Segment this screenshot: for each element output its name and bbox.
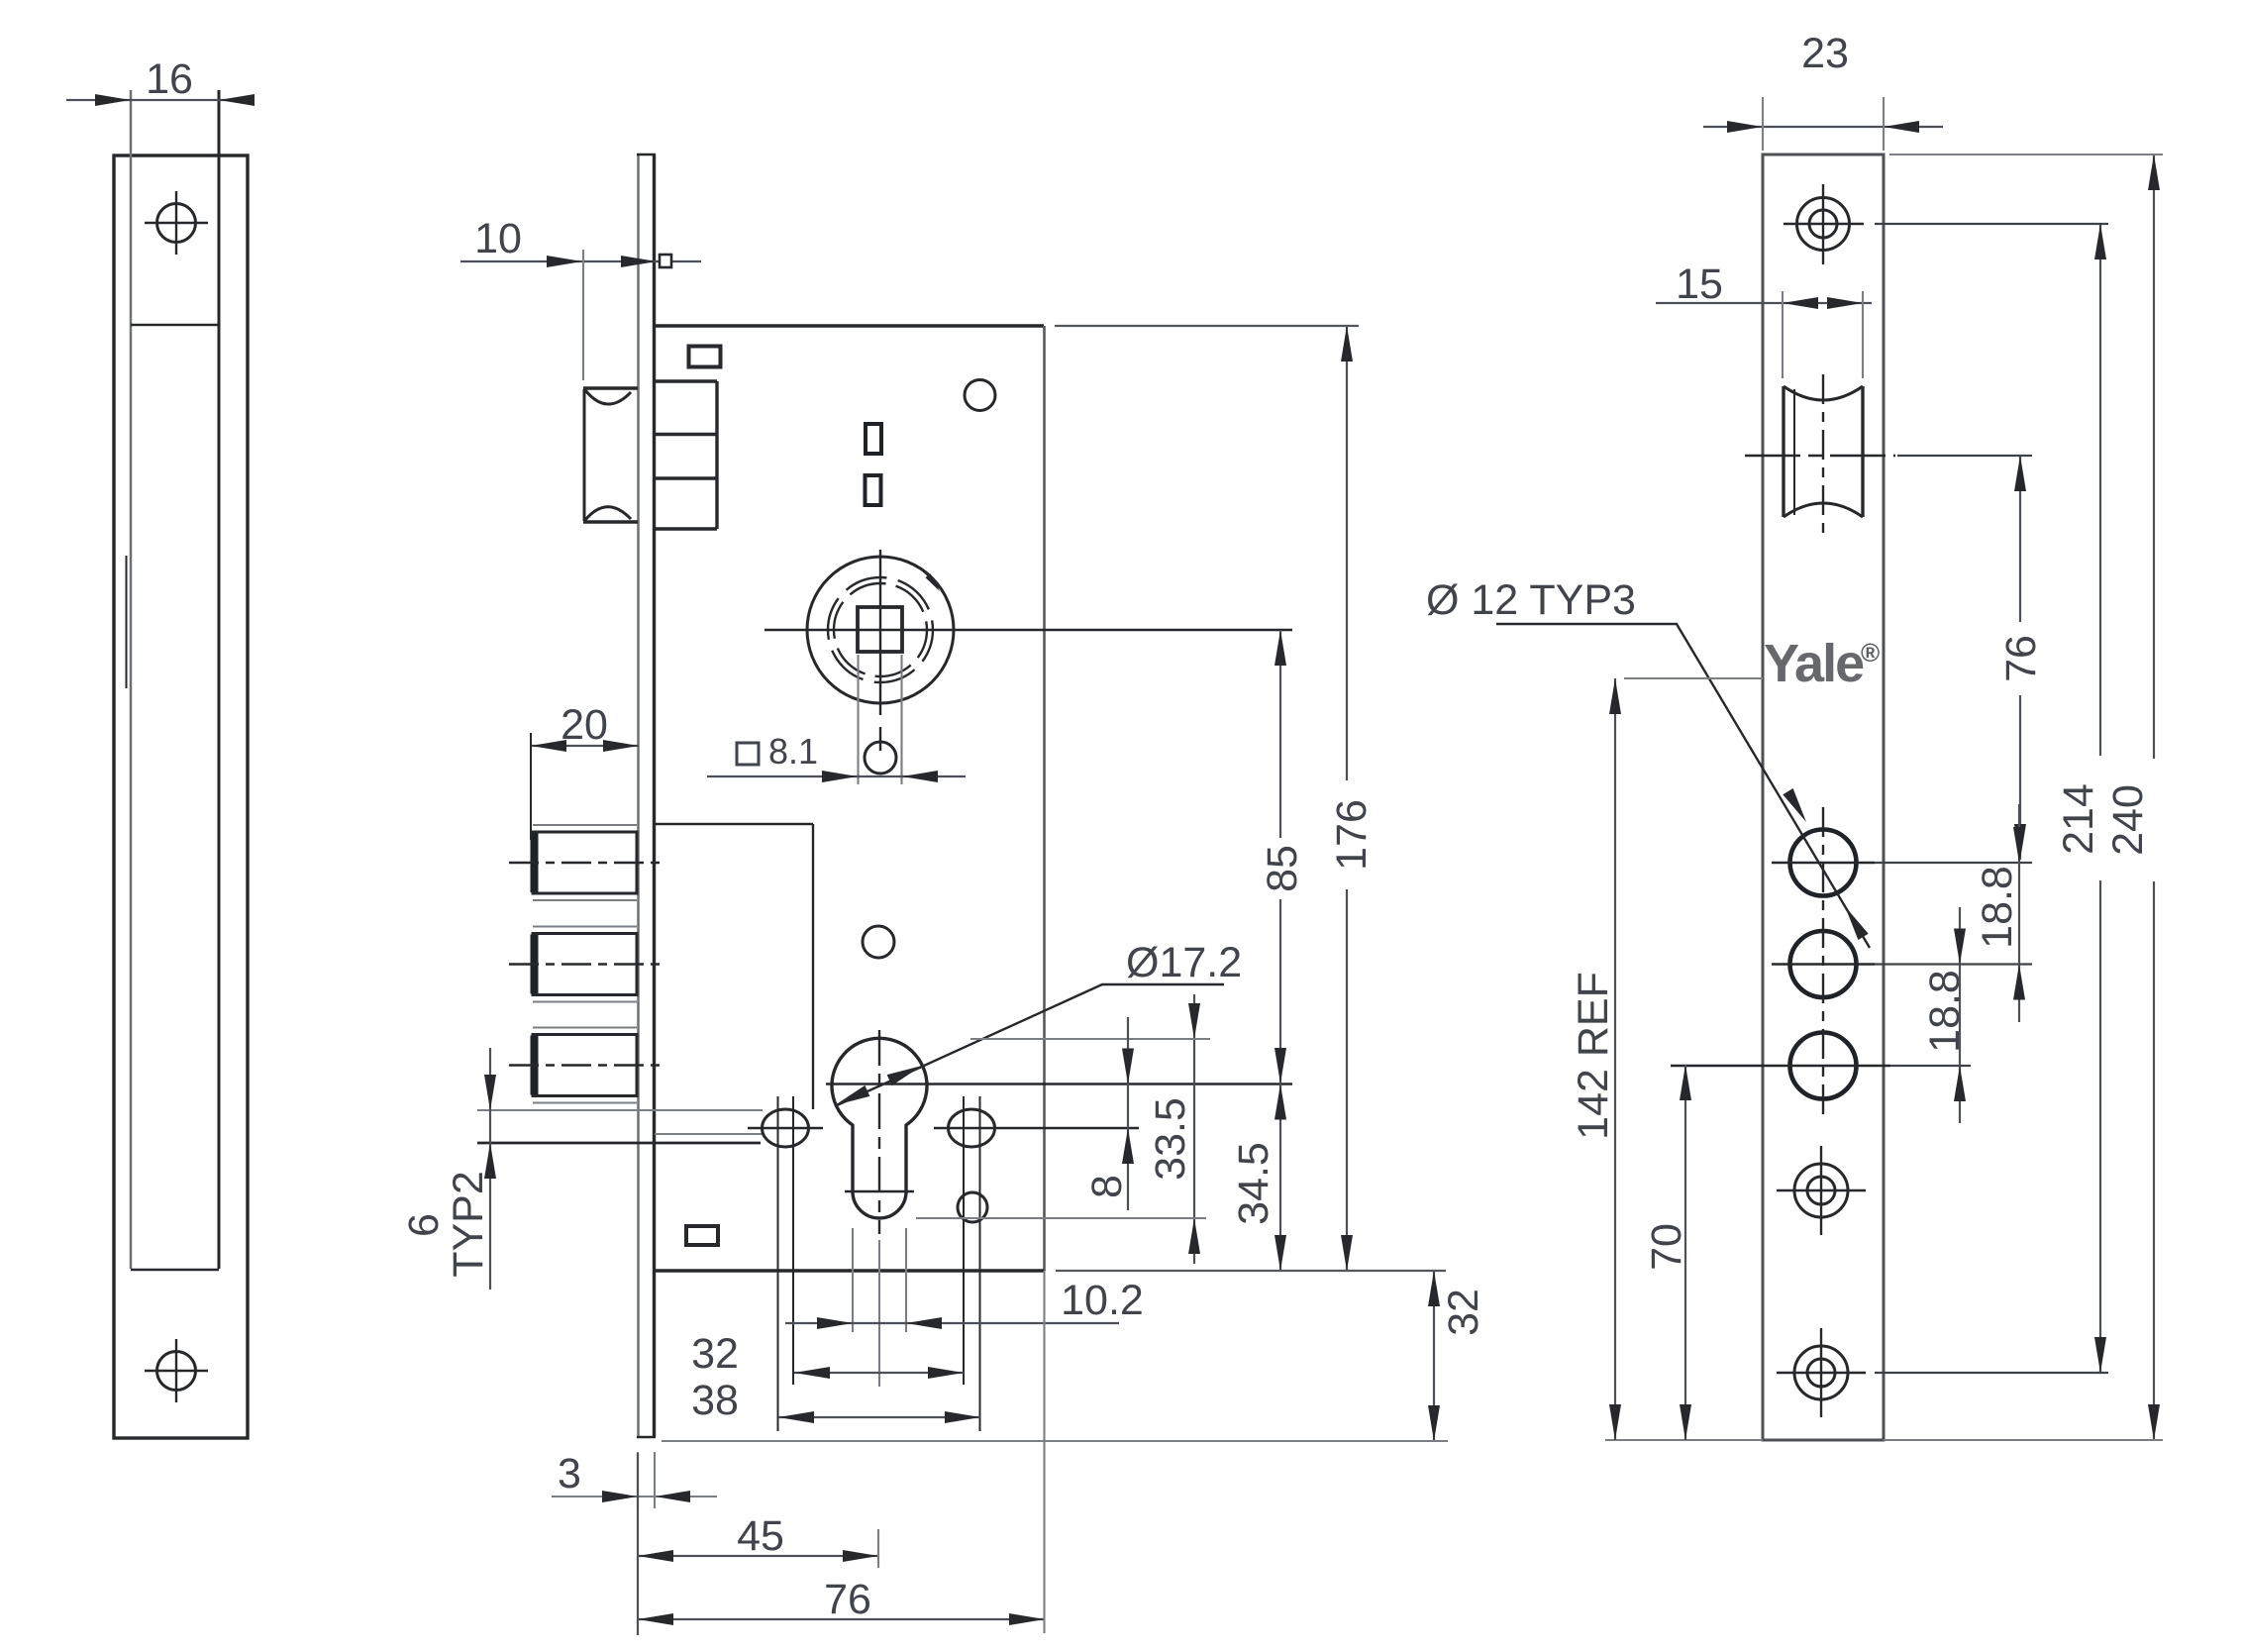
svg-text:23: 23 (1801, 30, 1849, 77)
svg-text:176: 176 (1328, 799, 1376, 871)
left view: faceplate side profile outline (114, 155, 248, 1438)
middle view: deadbolt pin 2 hole lines (533, 927, 637, 1002)
middle view: lock case bottom edge (655, 1269, 1044, 1272)
svg-text:20: 20 (561, 701, 608, 749)
dimension 176 line and arrows (1341, 326, 1353, 1271)
right view: Yale logo (1764, 634, 1880, 693)
dimension 76 right extension line (1043, 1271, 1045, 1633)
extension line plate top to 240 (1889, 154, 2163, 155)
left view: lock case top edge (side) (131, 324, 219, 326)
middle view: forend plate left edge (637, 155, 640, 1437)
dimension 23 extension lines (1763, 97, 1884, 151)
dimension 176 text (1328, 799, 1376, 871)
dimension 6 TYP2 text (400, 1171, 492, 1278)
extension lines 10.2 dim (853, 1228, 906, 1332)
right view: screw hole 5 (countersunk) (1777, 1328, 1866, 1417)
middle view: latch bolt head bottom edge (583, 520, 638, 523)
dimension 45 text (737, 1512, 784, 1560)
svg-text:45: 45 (737, 1512, 784, 1560)
svg-text:8: 8 (1083, 1175, 1131, 1198)
left view: top screw hole (145, 191, 208, 255)
extension line hole1 center (1875, 862, 2032, 864)
dimension 10 text (474, 215, 522, 262)
dimension 20 extension line (530, 733, 532, 840)
dimension 18.8 upper text (1974, 866, 2021, 949)
svg-text:85: 85 (1259, 845, 1306, 892)
dimension 76 (right view) line and arrows (2014, 456, 2026, 860)
dimension 32 vertical text (1440, 1289, 1487, 1336)
dimension 15 line and arrows (1656, 297, 1872, 309)
svg-text:Ø 12 TYP3: Ø 12 TYP3 (1426, 576, 1636, 624)
dimension 23 text (1801, 30, 1849, 77)
svg-text:Yale: Yale (1764, 634, 1864, 693)
middle view: latch bolt head left edge (583, 389, 586, 521)
dimension 16 text (146, 55, 193, 103)
extension line forend bottom (662, 1440, 1448, 1442)
svg-text:18.8: 18.8 (1974, 866, 2021, 949)
extension line top screw hole to 214 (1875, 223, 2108, 225)
dimension 6 line and arrows (484, 1048, 496, 1290)
extension lines 32 dim (793, 1096, 964, 1385)
left view: lock case bottom edge (side) (131, 1269, 219, 1271)
dimension 16 line and arrows (66, 94, 255, 106)
dimension 10.2 line and arrows (785, 1317, 1119, 1329)
middle view: slot hole 1 (866, 424, 881, 454)
dimension 38 text (691, 1377, 739, 1424)
dimension 70 line and arrows (1680, 1065, 1691, 1440)
svg-text:70: 70 (1643, 1223, 1690, 1271)
dimension 3 extension lines (638, 1452, 655, 1508)
dimension 10 extension line (582, 250, 584, 380)
label Ø12 TYP3 leader with arrows (1496, 624, 1870, 948)
extension line keyhole bottom to 33.5 (916, 1217, 1206, 1219)
svg-text:3: 3 (558, 1450, 581, 1497)
dimension 32 horizontal text (691, 1330, 739, 1378)
dimension square 8.1 symbol and text (737, 731, 818, 772)
svg-text:18.8: 18.8 (1921, 970, 1969, 1053)
middle view: cylinder screw hole right (934, 1109, 1139, 1147)
right view: roller centerlines (1745, 374, 1895, 540)
extension line roller center to 76 dim (1897, 455, 2032, 457)
svg-text:16: 16 (146, 55, 193, 103)
extension line plate bottom (1605, 1439, 2163, 1441)
dimension 70 text (1643, 1223, 1690, 1271)
middle view: small circle below spindle (865, 742, 896, 774)
extension line for 142 REF top (1624, 677, 1763, 679)
extension line cylinder top to 33.5 (970, 1038, 1210, 1040)
svg-text:8.1: 8.1 (768, 731, 818, 772)
right view: screw hole 4 (countersunk) (1777, 1146, 1866, 1235)
middle view: small circle lower right (958, 1192, 987, 1222)
middle view: deadbolt pin 1 hole lines (533, 825, 637, 900)
dimension 240 text (2104, 784, 2152, 856)
dimension 33.5 line and arrows (1188, 994, 1200, 1264)
dimension 3 line and arrows (552, 1491, 717, 1502)
left view: bottom screw hole (145, 1339, 208, 1402)
dimension 45 line and arrows (638, 1550, 878, 1562)
svg-text:10.2: 10.2 (1061, 1277, 1144, 1324)
dimension 15 text (1676, 260, 1723, 308)
left view: faceplate inner left edge / 16-dim extension (130, 90, 133, 1269)
dimension 8 line and arrows (1122, 1017, 1134, 1210)
right view: faceplate front outline (1763, 155, 1884, 1440)
dimension 76 horizontal line and arrows (638, 1613, 1045, 1625)
middle view: deadbolt pin 2 (533, 934, 637, 995)
middle view: deadbolt pin 2 centerline (509, 963, 662, 965)
middle view: keyhole centerlines (826, 1030, 1292, 1234)
middle view: spindle centerlines (765, 550, 1292, 751)
svg-text:32: 32 (1440, 1289, 1487, 1336)
extension line case top to 176 (1055, 325, 1359, 327)
dimension 38 line and arrows (778, 1411, 980, 1423)
middle view: inner mechanism boundary (655, 824, 813, 1109)
svg-text:34.5: 34.5 (1230, 1142, 1277, 1225)
middle view: small circle upper right (965, 380, 995, 411)
dimension 214 line and arrows (2094, 224, 2106, 1373)
svg-text:33.5: 33.5 (1147, 1097, 1194, 1181)
right view: vertical centerline through pin holes (1822, 807, 1824, 1121)
middle view: deadbolt pin 3 hole lines (533, 1028, 637, 1103)
dimension 32 vertical line and arrows (1428, 1271, 1440, 1441)
middle view: rotation direction arc arrow (923, 570, 943, 593)
middle view: small square hole upper (689, 347, 721, 367)
middle view: deadbolt pin 1 (533, 832, 637, 893)
dimension 18.8 lower text (1921, 970, 1969, 1053)
middle view: guard plate line C (477, 1142, 761, 1145)
dimension 18.8 lower line and arrows (1954, 907, 1966, 1123)
dimension 85 and 34.5 shared line with arrows (1274, 630, 1286, 1271)
dimension 214 text (2055, 783, 2102, 855)
middle view: guard plate line A (477, 1109, 763, 1111)
middle view: spindle follower outer circle (807, 557, 954, 703)
label Ø17.2 leader and arrows (833, 984, 1224, 1110)
middle view: deadbolt pin 3 centerline (509, 1064, 662, 1066)
middle view: forend plate top and bottom edges (637, 155, 656, 1437)
middle view: forend plate right edge (653, 155, 656, 1437)
dimension 20 text (561, 701, 608, 749)
dimension 76 horizontal text (824, 1576, 871, 1623)
svg-text:76: 76 (1997, 635, 2045, 682)
dimension 18.8 upper line and arrows (2013, 804, 2025, 1022)
svg-text:10: 10 (474, 215, 522, 262)
dimension 142 REF text (1570, 972, 1617, 1140)
dimension 15 extension lines (1783, 291, 1863, 378)
right view: anti-friction pin hole 3 (Ø12) (1671, 1033, 1890, 1099)
middle view: small square hole lower (686, 1226, 718, 1245)
svg-text:TYP2: TYP2 (445, 1171, 492, 1278)
right view: latch roller body (1784, 386, 1863, 517)
dimension 45 extension line right (877, 1529, 879, 1568)
extension line hole5 to 214 (1875, 1372, 2108, 1374)
svg-text:®: ® (1861, 638, 1880, 668)
svg-text:214: 214 (2055, 783, 2102, 855)
middle view: latch bolt body inside case (655, 381, 717, 529)
label Ø17.2 text (1126, 939, 1242, 986)
middle view: guard plate line B (655, 1133, 763, 1135)
middle view: cylinder screw hole left (748, 1109, 823, 1147)
middle view: lock case right edge (1043, 326, 1046, 1271)
right view: anti-friction pin hole 2 (Ø12) (1772, 931, 1875, 997)
dimension 10.2 text (1061, 1277, 1144, 1324)
middle view: small circle mid lower (863, 926, 894, 958)
middle view: slot hole 2 (866, 475, 881, 505)
svg-text:6: 6 (400, 1213, 448, 1237)
dimension 85 text (1259, 845, 1306, 892)
svg-text:38: 38 (691, 1377, 739, 1424)
svg-text:142 REF: 142 REF (1570, 972, 1617, 1140)
extension lines 38 dim (778, 1096, 980, 1431)
dimension 142 REF line and arrows (1609, 678, 1621, 1440)
svg-text:240: 240 (2104, 784, 2152, 856)
middle view: lock case top edge (655, 324, 1044, 327)
dimension 8.1 line and arrows (707, 771, 966, 782)
dimension 76 (right view) text (1997, 635, 2045, 682)
middle view: deadbolt pin 3 (533, 1035, 637, 1096)
extension line keyhole centerline below (878, 1240, 880, 1387)
dimension 10 line and arrows (460, 255, 701, 267)
dimension 34.5 text (1230, 1142, 1277, 1225)
middle view: spindle square hole 8.1 (858, 607, 902, 652)
dimension 8 text (1083, 1175, 1131, 1198)
svg-text:32: 32 (691, 1330, 739, 1378)
left view: faceplate inner right edge / 16-dim extension (218, 90, 221, 1269)
right view: anti-friction pin hole 1 (Ø12) (1772, 830, 1875, 896)
middle view: spindle follower inner ring (dashed) (828, 577, 933, 682)
right view: top countersunk screw hole (1784, 184, 1864, 264)
extension line case bottom to 176/32 (1056, 1270, 1446, 1272)
svg-text:Ø17.2: Ø17.2 (1126, 939, 1242, 986)
dimension 8.1 extension lines (859, 655, 902, 784)
dimension 45/76 left extension line (637, 1453, 639, 1635)
dimension 240 line and arrows (2148, 155, 2160, 1440)
svg-text:15: 15 (1676, 260, 1723, 308)
label Ø12 TYP3 (1426, 576, 1636, 624)
dimension 20 line and arrows (531, 740, 639, 752)
middle view: latch bolt bevel arcs (585, 390, 631, 520)
dimension 32 horizontal line and arrows (794, 1367, 964, 1379)
dimension 3 text (558, 1450, 581, 1497)
dimension 33.5 text (1147, 1097, 1194, 1181)
dimension 23 line and arrows (1703, 121, 1943, 133)
middle view: cylinder keyhole profile (832, 1038, 927, 1218)
svg-text:76: 76 (824, 1576, 871, 1623)
middle view: latch bolt head top edge (583, 386, 638, 389)
left view: latch slot tick on left edge (126, 556, 128, 688)
extension line hole2 center (1875, 963, 2032, 965)
extension line hole3 center (1890, 1065, 1971, 1067)
middle view: deadbolt pin 1 centerline (509, 862, 662, 864)
